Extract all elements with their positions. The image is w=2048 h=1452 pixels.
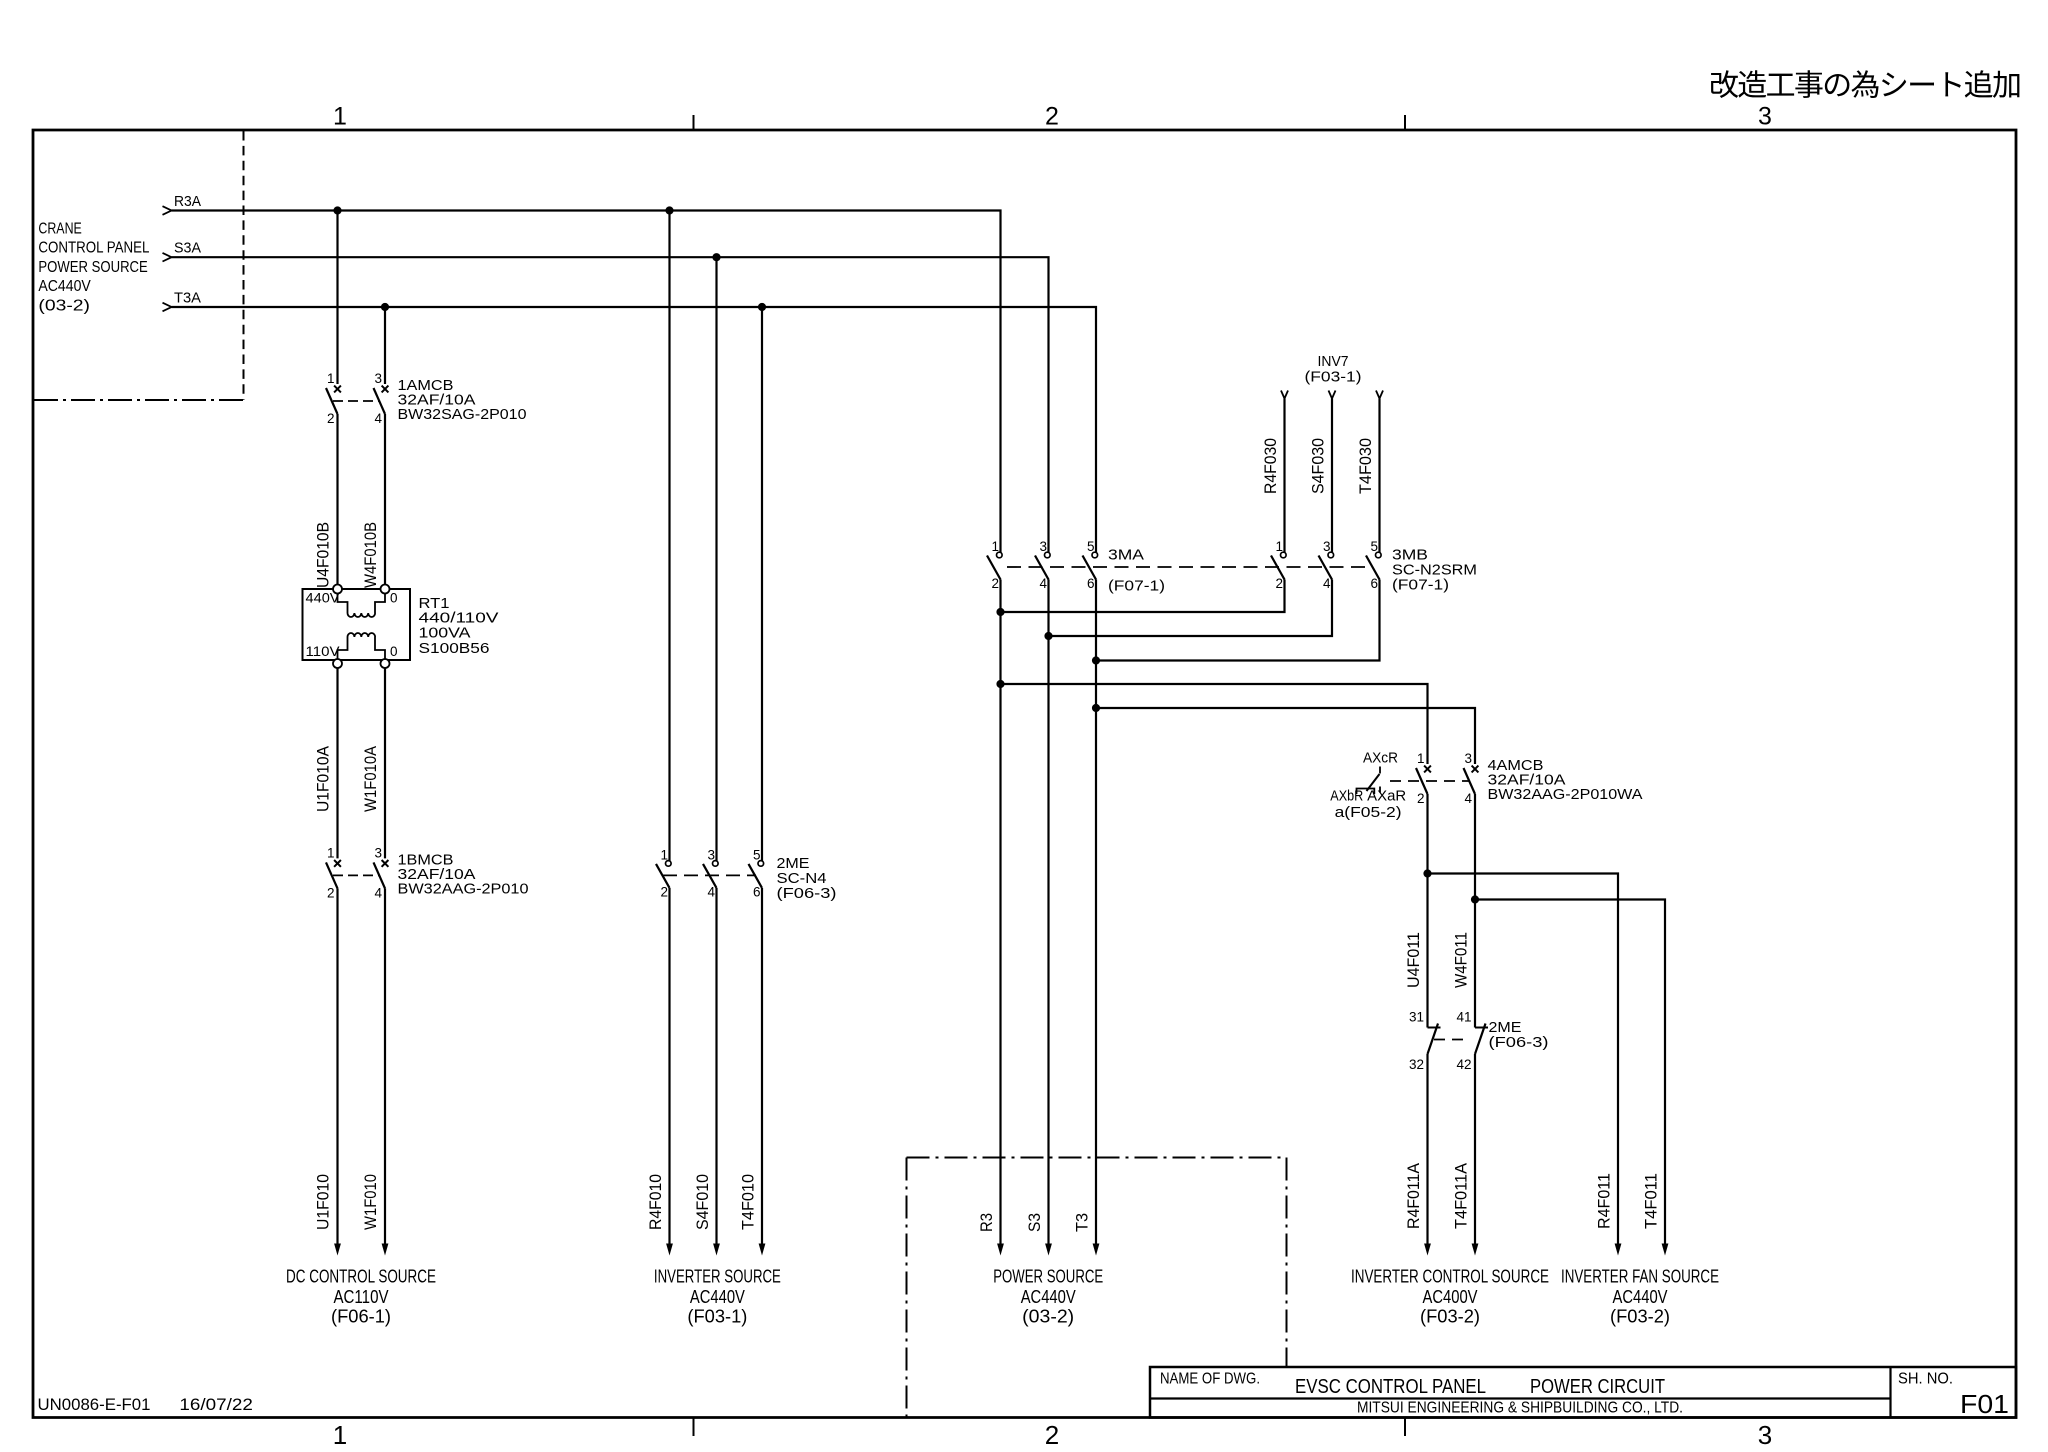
crane panel dashed boundary vertical [243, 131, 245, 400]
svg-text:S100B56: S100B56 [419, 641, 490, 657]
svg-text:3: 3 [1758, 1420, 1772, 1447]
svg-text:3: 3 [1758, 103, 1772, 131]
svg-text:2ME: 2ME [1489, 1020, 1522, 1036]
junction S3-3MB [1044, 632, 1052, 640]
wire R3A to 2ME pole1 [668, 211, 670, 861]
wire S4F030 [1331, 399, 1333, 553]
svg-text:2: 2 [991, 576, 999, 591]
svg-text:T4F011A: T4F011A [1453, 1163, 1471, 1229]
junction R3A to 1AMCB [333, 206, 341, 214]
svg-text:U1F010: U1F010 [315, 1174, 333, 1230]
wire 1BMCB pole2 down [336, 888, 338, 1247]
svg-text:42: 42 [1456, 1057, 1471, 1072]
svg-text:U4F011: U4F011 [1405, 932, 1423, 988]
svg-text:100VA: 100VA [419, 626, 471, 642]
wire 1BMCB pole4 down [384, 888, 386, 1247]
svg-text:4: 4 [1039, 576, 1047, 591]
svg-text:0: 0 [390, 591, 398, 606]
wire S3 vertical lower [1047, 580, 1049, 1248]
arrow T4F010 out [759, 1244, 766, 1256]
wire RT1 0 to 1BMCB pole3 [384, 668, 386, 858]
wire R3 vertical lower [999, 580, 1001, 1248]
crane panel chain boundary horizontal [34, 399, 244, 401]
junction T3A to 1AMCB [381, 303, 389, 311]
svg-text:0: 0 [390, 644, 398, 659]
wire R4F030 [1283, 399, 1285, 553]
contactor 3MA pole 1 [997, 552, 1003, 558]
svg-text:AXaR: AXaR [1367, 789, 1406, 805]
svg-text:S4F030: S4F030 [1310, 438, 1328, 494]
svg-text:3: 3 [1464, 751, 1472, 766]
wire T3A to 2ME pole5 [761, 307, 763, 861]
svg-text:3: 3 [374, 845, 382, 860]
svg-text:W4F011: W4F011 [1453, 932, 1471, 988]
svg-text:INV7: INV7 [1318, 354, 1349, 370]
node T3A source arrow [163, 303, 172, 312]
arrow T4F030 to INV7 [1376, 391, 1383, 399]
svg-text:AXcR: AXcR [1363, 751, 1398, 767]
contactor 2ME pole 3 [713, 861, 719, 867]
svg-text:AC440V: AC440V [1021, 1286, 1077, 1307]
svg-text:S3: S3 [1026, 1213, 1044, 1232]
wire 3MB pole4 to S3 vertical [1049, 580, 1333, 637]
wire T3 vertical lower [1095, 580, 1097, 1248]
contactor 3MB pole 5 [1376, 552, 1382, 558]
wire RT1 110V to 1BMCB pole1 [336, 668, 338, 858]
svg-text:DC CONTROL SOURCE: DC CONTROL SOURCE [286, 1266, 436, 1287]
svg-text:2: 2 [1417, 791, 1425, 806]
svg-text:F01: F01 [1960, 1389, 2009, 1419]
svg-text:3MB: 3MB [1392, 548, 1428, 564]
svg-text:440V: 440V [306, 591, 340, 606]
svg-text:R3A: R3A [174, 194, 201, 210]
svg-text:1: 1 [660, 847, 668, 862]
svg-text:2: 2 [327, 885, 335, 900]
svg-text:a(F05-2): a(F05-2) [1335, 805, 1402, 821]
svg-text:W1F010A: W1F010A [362, 746, 380, 812]
wire 1AMCB pole4 to RT1 0 [384, 414, 386, 585]
svg-text:UN0086-E-F01: UN0086-E-F01 [38, 1396, 151, 1414]
svg-text:4: 4 [374, 411, 382, 426]
svg-text:5: 5 [1087, 539, 1095, 554]
contactor 3MA pole 3 [1045, 552, 1051, 558]
svg-text:POWER SOURCE: POWER SOURCE [38, 259, 147, 276]
contactor 2ME pole 5 [758, 861, 764, 867]
arrow T3 out [1093, 1244, 1100, 1256]
svg-text:(F07-1): (F07-1) [1108, 579, 1165, 595]
svg-text:T4F030: T4F030 [1357, 438, 1375, 494]
contact 2ME aux 41-42 [1475, 1027, 1488, 1029]
wire 1AMCB pole2 to RT1 440V [336, 414, 338, 585]
svg-text:INVERTER SOURCE: INVERTER SOURCE [654, 1266, 781, 1287]
svg-text:SC-N4: SC-N4 [777, 871, 827, 887]
svg-text:AC440V: AC440V [38, 278, 91, 295]
node R3A source arrow [163, 206, 172, 215]
wire branch to T4F011 [1475, 900, 1665, 1248]
transformer RT1 terminal 0 top [381, 585, 390, 594]
arrow T4F011 out [1662, 1244, 1669, 1256]
svg-text:T3A: T3A [174, 291, 201, 307]
svg-text:(F06-3): (F06-3) [777, 886, 837, 902]
breaker 1BMCB pole 3 [382, 860, 389, 867]
svg-text:4: 4 [707, 884, 715, 899]
svg-text:W4F010B: W4F010B [362, 522, 380, 588]
svg-text:1: 1 [333, 1420, 347, 1447]
arrow R4F010 out [666, 1244, 673, 1256]
svg-text:4: 4 [1323, 576, 1331, 591]
svg-text:4: 4 [1464, 791, 1472, 806]
svg-text:41: 41 [1456, 1010, 1471, 1025]
svg-text:1: 1 [327, 371, 335, 386]
arrow S3 out [1045, 1244, 1052, 1256]
junction R3-3MB [996, 608, 1004, 616]
svg-text:(03-2): (03-2) [1022, 1305, 1074, 1326]
svg-text:CRANE: CRANE [38, 221, 81, 238]
wire R3A to 1AMCB pole 1 [336, 211, 338, 385]
svg-text:2: 2 [1045, 103, 1059, 131]
wire aux 42 down [1474, 1054, 1476, 1248]
title block divider horizontal [1150, 1397, 1891, 1399]
svg-text:U1F010A: U1F010A [315, 746, 333, 812]
transformer RT1 terminal 440V [333, 585, 342, 594]
svg-text:2: 2 [1045, 1420, 1059, 1447]
junction R3A to 2ME [665, 206, 673, 214]
arrow R4F011A out [1424, 1244, 1431, 1256]
wire aux 32 down [1426, 1054, 1428, 1248]
arrow U1F010 out [334, 1244, 341, 1256]
svg-text:R3: R3 [978, 1213, 996, 1232]
svg-text:R4F011A: R4F011A [1405, 1163, 1423, 1229]
svg-text:(F03-2): (F03-2) [1610, 1305, 1670, 1326]
top border tick 1-2 [693, 115, 695, 131]
wire 3MB pole2 to R3 vertical [1001, 580, 1285, 613]
wire T3A to 1AMCB pole 3 [384, 307, 386, 384]
power source panel chain boundary [907, 1157, 1287, 1159]
contactor 3MA pole 5 [1092, 552, 1098, 558]
svg-text:3: 3 [707, 847, 715, 862]
svg-text:AC400V: AC400V [1423, 1286, 1479, 1307]
junction T3A to 2ME [758, 303, 766, 311]
svg-text:AC440V: AC440V [690, 1286, 746, 1307]
transformer RT1 primary winding [338, 594, 386, 614]
bottom border tick 2-3 [1404, 1417, 1406, 1436]
wire 3MB pole6 to T3 vertical [1096, 580, 1380, 661]
svg-text:R4F030: R4F030 [1262, 438, 1280, 494]
svg-text:AC110V: AC110V [334, 1286, 390, 1307]
svg-text:BW32AAG-2P010WA: BW32AAG-2P010WA [1488, 787, 1643, 803]
wire 2ME pole4 down [715, 888, 717, 1248]
Japanese revision note 改造工事の為シート追加 [1711, 70, 2019, 98]
arrow R3 out [997, 1244, 1004, 1256]
wire T4F030 [1378, 399, 1380, 553]
svg-text:1: 1 [327, 845, 335, 860]
transformer RT1 terminal 0 bottom [381, 659, 390, 668]
svg-text:16/07/22: 16/07/22 [179, 1396, 253, 1414]
transformer RT1 secondary winding [338, 637, 386, 659]
wire T3 branch to 4AMCB pole3 [1096, 708, 1475, 764]
wire T3A bus [172, 307, 1097, 553]
svg-text:31: 31 [1409, 1010, 1424, 1025]
top border tick 2-3 [1404, 115, 1406, 131]
svg-text:AXbR: AXbR [1330, 789, 1363, 805]
svg-text:3: 3 [1323, 539, 1331, 554]
junction U4F011-R4F011 [1423, 869, 1431, 877]
svg-text:5: 5 [1370, 539, 1378, 554]
breaker 4AMCB pole 1 [1424, 766, 1431, 773]
svg-text:(F06-3): (F06-3) [1489, 1035, 1549, 1051]
svg-text:(F03-1): (F03-1) [687, 1305, 747, 1326]
svg-text:440/110V: 440/110V [419, 611, 499, 627]
svg-text:1: 1 [1275, 539, 1283, 554]
contact AXcR operator [1379, 767, 1381, 774]
svg-text:2: 2 [1275, 576, 1283, 591]
svg-text:2ME: 2ME [777, 856, 810, 872]
arrow R4F030 to INV7 [1281, 391, 1288, 399]
svg-text:110V: 110V [306, 644, 340, 659]
junction S3A to 2ME [712, 253, 720, 261]
contactor 2ME pole 1 [666, 861, 672, 867]
svg-text:1: 1 [1417, 751, 1425, 766]
svg-text:MITSUI ENGINEERING & SHIPBUILD: MITSUI ENGINEERING & SHIPBUILDING CO., L… [1357, 1400, 1683, 1417]
contactor 3MB pole 1 [1281, 552, 1287, 558]
breaker 4AMCB pole 3 [1472, 766, 1479, 773]
wire S3A to 2ME pole3 [715, 257, 717, 861]
svg-text:AC440V: AC440V [1613, 1286, 1669, 1307]
svg-text:CONTROL PANEL: CONTROL PANEL [38, 240, 149, 257]
svg-text:S4F010: S4F010 [694, 1174, 712, 1230]
svg-text:POWER SOURCE: POWER SOURCE [993, 1266, 1103, 1287]
node S3A source arrow [163, 253, 172, 262]
svg-text:T4F011: T4F011 [1643, 1173, 1661, 1229]
svg-text:6: 6 [753, 884, 761, 899]
svg-text:INVERTER FAN SOURCE: INVERTER FAN SOURCE [1561, 1266, 1719, 1287]
svg-text:R4F011: R4F011 [1596, 1173, 1614, 1229]
svg-text:S3A: S3A [174, 241, 201, 257]
svg-text:2: 2 [660, 884, 668, 899]
arrow S4F010 out [713, 1244, 720, 1256]
arrow T4F011A out [1472, 1244, 1479, 1256]
svg-text:(F06-1): (F06-1) [331, 1305, 391, 1326]
svg-text:(F03-1): (F03-1) [1305, 370, 1362, 386]
wire R3A bus [172, 211, 1001, 553]
breaker 1AMCB pole 1 [334, 386, 341, 393]
svg-text:6: 6 [1087, 576, 1095, 591]
junction W4F011-T4F011 [1471, 895, 1479, 903]
transformer RT1 terminal 110V [333, 659, 342, 668]
arrow W1F010 out [382, 1244, 389, 1256]
svg-text:1: 1 [991, 539, 999, 554]
svg-text:3: 3 [374, 371, 382, 386]
title block divider vertical [1889, 1367, 1891, 1418]
svg-text:SC-N2SRM: SC-N2SRM [1392, 563, 1477, 579]
transformer RT1 box [303, 589, 411, 660]
junction R3 branch [996, 680, 1004, 688]
wire R3 branch to 4AMCB pole1 [1001, 684, 1428, 764]
arrow R4F011 out [1615, 1244, 1622, 1256]
svg-text:(F03-2): (F03-2) [1420, 1305, 1480, 1326]
svg-text:6: 6 [1370, 576, 1378, 591]
wire 4AMCB pole2 down [1426, 794, 1428, 1028]
wire 2ME pole2 down [668, 888, 670, 1248]
svg-text:BW32AAG-2P010: BW32AAG-2P010 [398, 881, 529, 897]
contactor 2ME link [663, 874, 756, 876]
svg-text:3: 3 [1039, 539, 1047, 554]
svg-text:T3: T3 [1074, 1213, 1092, 1232]
svg-text:1: 1 [333, 103, 347, 131]
svg-text:2: 2 [327, 411, 335, 426]
breaker 1AMCB link [333, 400, 379, 402]
contactor 3MB pole 3 [1328, 552, 1334, 558]
svg-text:R4F010: R4F010 [647, 1174, 665, 1230]
svg-text:EVSC CONTROL PANEL: EVSC CONTROL PANEL [1295, 1376, 1486, 1398]
svg-text:3MA: 3MA [1108, 548, 1144, 564]
bottom border tick 1-2 [693, 1417, 695, 1436]
svg-text:(F07-1): (F07-1) [1392, 578, 1449, 594]
svg-text:4: 4 [374, 885, 382, 900]
contact 2ME aux 31-32 [1428, 1027, 1441, 1029]
svg-text:U4F010B: U4F010B [315, 522, 333, 588]
svg-text:BW32SAG-2P010: BW32SAG-2P010 [398, 407, 527, 423]
junction T3 branch [1092, 704, 1100, 712]
svg-text:(03-2): (03-2) [38, 297, 90, 314]
contactor 3MA-3MB link [1007, 566, 1372, 568]
wire 2ME pole6 down [761, 888, 763, 1248]
contact 2ME aux link [1434, 1039, 1468, 1041]
svg-text:5: 5 [753, 847, 761, 862]
wire branch to R4F011 [1428, 874, 1619, 1248]
svg-text:POWER CIRCUIT: POWER CIRCUIT [1530, 1376, 1665, 1398]
svg-text:NAME OF DWG.: NAME OF DWG. [1160, 1371, 1260, 1388]
junction T3-3MB [1092, 656, 1100, 664]
breaker 1BMCB link [333, 874, 379, 876]
wire S3A bus [172, 257, 1049, 552]
title block frame [1150, 1367, 2016, 1418]
breaker 1BMCB pole 1 [334, 860, 341, 867]
svg-text:T4F010: T4F010 [740, 1174, 758, 1230]
breaker 4AMCB link [1390, 780, 1469, 782]
svg-text:W1F010: W1F010 [362, 1174, 380, 1230]
arrow S4F030 to INV7 [1329, 391, 1336, 399]
breaker 1AMCB pole 3 [382, 386, 389, 393]
svg-text:32: 32 [1409, 1057, 1424, 1072]
wire 4AMCB pole4 down [1474, 794, 1476, 1028]
svg-text:SH. NO.: SH. NO. [1898, 1371, 1953, 1388]
svg-text:INVERTER CONTROL SOURCE: INVERTER CONTROL SOURCE [1351, 1266, 1549, 1287]
